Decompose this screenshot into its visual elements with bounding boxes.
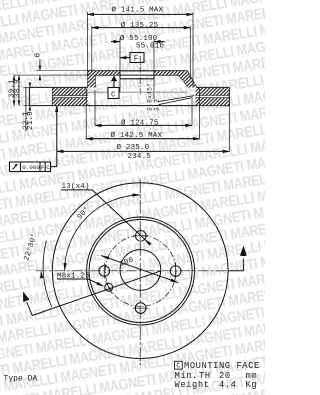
svg-text:0.080: 0.080 — [22, 164, 40, 171]
friction ring right top edge — [197, 86, 230, 88]
center bore circle — [120, 250, 161, 291]
svg-text:234.5: 234.5 — [128, 153, 152, 161]
axis dash-dot — [139, 56, 141, 96]
bolt hole right — [170, 263, 181, 279]
svg-text:4.4: 4.4 — [219, 380, 237, 390]
dimension Ø141.5 MAX — [87, 12, 193, 87]
svg-text:Weight: Weight — [175, 380, 210, 390]
svg-text:MOUNTING FACE: MOUNTING FACE — [184, 361, 260, 371]
svg-text:C: C — [46, 164, 50, 171]
cutting plane right arm with arrow — [229, 246, 247, 271]
datum C triangle and box — [108, 76, 119, 99]
svg-text:C: C — [111, 91, 116, 99]
leader 13(x4) — [61, 190, 151, 246]
svg-text:38.9: 38.9 — [14, 79, 22, 98]
gray hub face line — [86, 91, 188, 93]
hatch left ring block — [53, 88, 88, 105]
svg-text:C: C — [176, 363, 180, 371]
bore in hat plate — [120, 71, 154, 99]
hatch right ring block — [196, 88, 229, 105]
outer disc circle — [52, 183, 228, 359]
svg-text:55.016: 55.016 — [136, 43, 165, 51]
svg-text:M8x1.25: M8x1.25 — [57, 273, 90, 281]
dimension Ø135.25 — [92, 26, 191, 80]
bottom-right note block — [175, 361, 260, 390]
dimension Ø142.5 MAX — [86, 89, 199, 139]
M8x1.25 leader — [57, 279, 105, 287]
svg-text:3.2: 3.2 — [153, 99, 160, 111]
svg-text:Ø 142.5 MAX: Ø 142.5 MAX — [111, 131, 163, 140]
bolt hole top — [133, 231, 149, 242]
hat left wall — [88, 71, 96, 88]
svg-text:3.8x45°: 3.8x45° — [146, 83, 154, 111]
runout tolerance frame — [10, 106, 57, 172]
svg-text:Type DA: Type DA — [4, 374, 38, 383]
svg-text:Ø 141.5 MAX: Ø 141.5 MAX — [112, 5, 164, 14]
svg-text:F: F — [41, 164, 45, 171]
datum F box — [120, 53, 144, 63]
vent slot lines left — [52, 95, 87, 97]
bolt hole bottom — [133, 303, 149, 314]
cutting plane left arm with arrow — [23, 271, 161, 316]
dimension 100 (bolt circle) — [101, 256, 179, 283]
M8 service hole — [105, 281, 113, 293]
dimension Ø235.0/234.5 — [57, 88, 230, 152]
bolt circle dash-dot — [105, 236, 176, 307]
dimension 39.1/38.9 — [14, 75, 19, 106]
front view text labels — [22, 183, 135, 281]
vertical centerline — [139, 179, 141, 365]
svg-text:Kg: Kg — [246, 380, 258, 390]
ring top extension left — [24, 86, 30, 88]
vent slot lines right + leaders — [159, 95, 230, 104]
friction ring left block outline — [29, 87, 229, 105]
hat top plate — [88, 71, 187, 75]
dimension 22.1/21.9 — [26, 83, 30, 132]
svg-text:Ø 124.75: Ø 124.75 — [121, 119, 159, 128]
svg-text:Ø 235.0: Ø 235.0 — [117, 143, 150, 152]
svg-text:F: F — [134, 56, 139, 64]
90 degree dimension arc — [64, 193, 141, 271]
bolt hole left — [99, 263, 110, 279]
dimension Ø55.100/55.016 — [111, 39, 165, 71]
svg-text:Ø 55.100: Ø 55.100 — [120, 34, 158, 43]
horizontal centerline — [36, 270, 229, 272]
svg-text:13(x4): 13(x4) — [62, 183, 90, 191]
dimension 6 — [36, 59, 88, 81]
svg-text:6: 6 — [34, 53, 42, 58]
svg-text:21.9: 21.9 — [27, 111, 35, 130]
hat right wall — [179, 71, 197, 88]
hub outer double circle — [87, 217, 195, 325]
22deg30 dimension arc — [40, 241, 52, 308]
section text labels — [111, 5, 165, 161]
svg-text:Ø 135.25: Ø 135.25 — [121, 21, 159, 30]
mounting face extension line — [14, 74, 88, 76]
dimension Ø124.75 — [95, 90, 192, 125]
